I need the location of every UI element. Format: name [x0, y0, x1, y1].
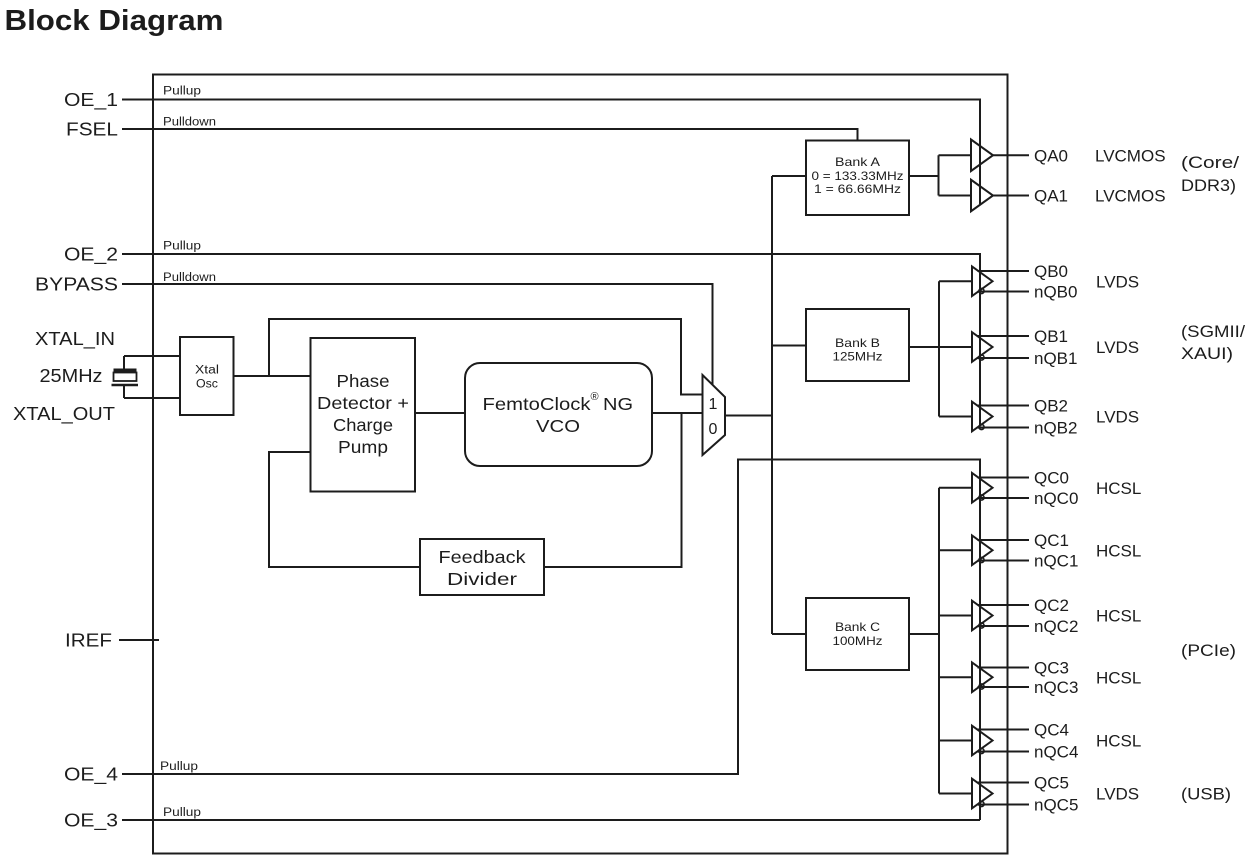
svg-text:OE_1: OE_1 — [64, 90, 118, 111]
svg-text:XTAL_IN: XTAL_IN — [35, 329, 115, 350]
block U2 Phase Detector + Charge Pump — [311, 338, 416, 492]
svg-text:Pullup: Pullup — [163, 807, 201, 819]
svg-text:FSEL: FSEL — [66, 120, 118, 140]
buffer QC4 — [972, 726, 1029, 756]
svg-text:Block Diagram: Block Diagram — [5, 5, 224, 37]
svg-text:Pullup: Pullup — [163, 241, 201, 253]
svg-text:QC0: QC0 — [1034, 469, 1069, 488]
svg-text:OE_4: OE_4 — [64, 765, 118, 786]
block Bank B divider — [806, 309, 909, 381]
wire bypass tap from xtal osc output to mux input 1 — [269, 319, 703, 395]
buffer QB1 — [972, 332, 1029, 362]
svg-text:nQB0: nQB0 — [1034, 283, 1077, 302]
svg-text:Bank B: Bank B — [835, 336, 880, 350]
svg-text:100MHz: 100MHz — [833, 634, 883, 648]
svg-text:nQC5: nQC5 — [1034, 796, 1078, 815]
svg-text:nQC1: nQC1 — [1034, 552, 1078, 571]
svg-text:0 = 133.33MHz: 0 = 133.33MHz — [812, 169, 904, 183]
svg-text:BYPASS: BYPASS — [35, 275, 118, 295]
svg-text:Pullup: Pullup — [163, 86, 201, 98]
wire Bank A input — [772, 175, 806, 177]
wire OE_4 to QC buffers enable — [122, 460, 980, 821]
svg-text:Charge: Charge — [333, 415, 393, 435]
buffer QC2 — [972, 601, 1029, 631]
wire mux output to distribution node — [725, 415, 772, 417]
svg-text:®: ® — [591, 391, 599, 403]
svg-text:QA0: QA0 — [1034, 147, 1068, 166]
svg-text:Pullup: Pullup — [160, 761, 198, 773]
svg-text:IREF: IREF — [65, 631, 112, 651]
wire xtal osc output to phase detector — [234, 375, 312, 377]
wire OE_2 to QB buffers enable — [122, 254, 980, 425]
svg-text:XTAL_OUT: XTAL_OUT — [13, 404, 115, 425]
svg-text:DDR3): DDR3) — [1181, 176, 1236, 195]
wire QA1 output — [993, 195, 1029, 197]
wire FSEL to Bank A — [122, 129, 858, 141]
block Bank A divider — [806, 141, 909, 216]
svg-text:nQB2: nQB2 — [1034, 419, 1077, 438]
svg-text:HCSL: HCSL — [1096, 542, 1141, 561]
svg-text:nQB1: nQB1 — [1034, 349, 1077, 368]
crystal Y1 25MHz — [112, 356, 139, 398]
svg-text:(Core/: (Core/ — [1181, 153, 1239, 172]
block Bank C divider — [806, 598, 909, 670]
svg-text:nQC4: nQC4 — [1034, 743, 1078, 762]
svg-text:Pulldown: Pulldown — [163, 272, 216, 284]
wire QA0 output — [993, 154, 1029, 156]
svg-text:Bank A: Bank A — [835, 155, 880, 169]
svg-text:LVCMOS: LVCMOS — [1095, 187, 1166, 206]
svg-text:QC2: QC2 — [1034, 596, 1069, 615]
svg-text:Pulldown: Pulldown — [163, 117, 216, 129]
buffer QC0 — [972, 473, 1029, 503]
svg-text:Bank C: Bank C — [835, 620, 880, 634]
buffer QC1 — [972, 536, 1029, 566]
svg-text:25MHz: 25MHz — [40, 366, 103, 386]
block U1 Xtal Osc — [180, 337, 234, 415]
svg-text:HCSL: HCSL — [1096, 479, 1141, 498]
svg-text:LVDS: LVDS — [1096, 273, 1139, 292]
wire BYPASS to mux select — [122, 284, 713, 385]
mux U5 bypass select — [703, 375, 726, 455]
svg-text:HCSL: HCSL — [1096, 732, 1141, 751]
svg-text:Detector +: Detector + — [317, 393, 409, 413]
buffer QB2 — [972, 402, 1029, 432]
svg-text:OE_2: OE_2 — [64, 245, 118, 266]
wire distribution vertical — [771, 176, 773, 634]
svg-text:NG: NG — [603, 394, 633, 414]
svg-text:1: 1 — [709, 396, 718, 413]
svg-text:HCSL: HCSL — [1096, 607, 1141, 626]
wire OE_3 to QC5 buffer enable — [122, 819, 980, 821]
wire phase detector output to VCO — [415, 412, 465, 414]
wire OE_1 to QA buffers enable — [122, 100, 980, 205]
wire VCO output tap to feedback divider — [544, 413, 682, 567]
wire Bank C output to QC feed — [909, 488, 972, 794]
svg-text:QC3: QC3 — [1034, 659, 1069, 678]
svg-text:0: 0 — [709, 421, 718, 438]
svg-text:VCO: VCO — [536, 416, 580, 436]
svg-text:HCSL: HCSL — [1096, 669, 1141, 688]
svg-text:QC4: QC4 — [1034, 721, 1069, 740]
svg-text:QB0: QB0 — [1034, 262, 1068, 281]
svg-text:Osc: Osc — [196, 379, 218, 391]
buffer QA1 — [971, 180, 993, 212]
chip boundary box — [153, 75, 1008, 854]
svg-text:Feedback: Feedback — [439, 547, 526, 567]
wire Bank A output to QA feed — [909, 155, 971, 195]
wire Bank B output to QB feed — [909, 281, 972, 416]
buffer QA0 — [971, 140, 993, 172]
svg-text:XAUI): XAUI) — [1181, 344, 1233, 363]
buffer QC3 — [972, 663, 1029, 693]
svg-text:(SGMII/: (SGMII/ — [1181, 322, 1245, 341]
wire Bank B input — [772, 345, 806, 347]
svg-text:QC5: QC5 — [1034, 774, 1069, 793]
svg-text:QB1: QB1 — [1034, 327, 1068, 346]
block U3 FemtoClock NG VCO — [465, 363, 652, 466]
svg-text:Pump: Pump — [338, 437, 388, 457]
buffer QC5 — [972, 779, 1029, 809]
svg-text:QA1: QA1 — [1034, 187, 1068, 206]
svg-text:OE_3: OE_3 — [64, 811, 118, 832]
svg-text:Xtal: Xtal — [195, 365, 219, 377]
svg-text:nQC3: nQC3 — [1034, 678, 1078, 697]
svg-text:LVDS: LVDS — [1096, 408, 1139, 427]
wire IREF stub — [119, 639, 159, 641]
svg-text:QC1: QC1 — [1034, 531, 1069, 550]
wire XTAL_IN — [124, 355, 180, 357]
wire XTAL_OUT — [124, 397, 180, 399]
svg-text:nQC2: nQC2 — [1034, 617, 1078, 636]
svg-text:LVDS: LVDS — [1096, 785, 1139, 804]
svg-text:nQC0: nQC0 — [1034, 489, 1078, 508]
svg-text:LVDS: LVDS — [1096, 338, 1139, 357]
svg-text:QB2: QB2 — [1034, 397, 1068, 416]
svg-text:(USB): (USB) — [1181, 785, 1231, 804]
wire VCO output to mux input 0 — [652, 412, 703, 414]
svg-text:LVCMOS: LVCMOS — [1095, 147, 1166, 166]
wire Bank C input — [772, 633, 806, 635]
svg-text:1 = 66.66MHz: 1 = 66.66MHz — [814, 182, 901, 196]
wire feedback divider output to phase detector — [269, 452, 420, 567]
svg-text:125MHz: 125MHz — [833, 350, 883, 364]
buffer QB0 — [972, 267, 1029, 297]
svg-text:Phase: Phase — [337, 371, 390, 391]
svg-text:(PCIe): (PCIe) — [1181, 641, 1236, 660]
svg-text:FemtoClock: FemtoClock — [483, 394, 591, 414]
svg-text:Divider: Divider — [447, 569, 517, 589]
block U4 Feedback Divider — [420, 539, 544, 595]
